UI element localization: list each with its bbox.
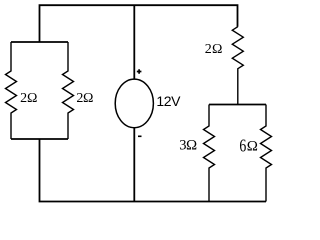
svg-text:12V: 12V bbox=[156, 93, 181, 109]
svg-text:Ω: Ω bbox=[247, 138, 258, 154]
svg-text:2Ω: 2Ω bbox=[76, 91, 93, 106]
svg-text:6: 6 bbox=[239, 137, 246, 156]
svg-text:2Ω: 2Ω bbox=[205, 42, 223, 57]
svg-text:3Ω: 3Ω bbox=[179, 137, 197, 153]
svg-text:2Ω: 2Ω bbox=[20, 91, 37, 106]
